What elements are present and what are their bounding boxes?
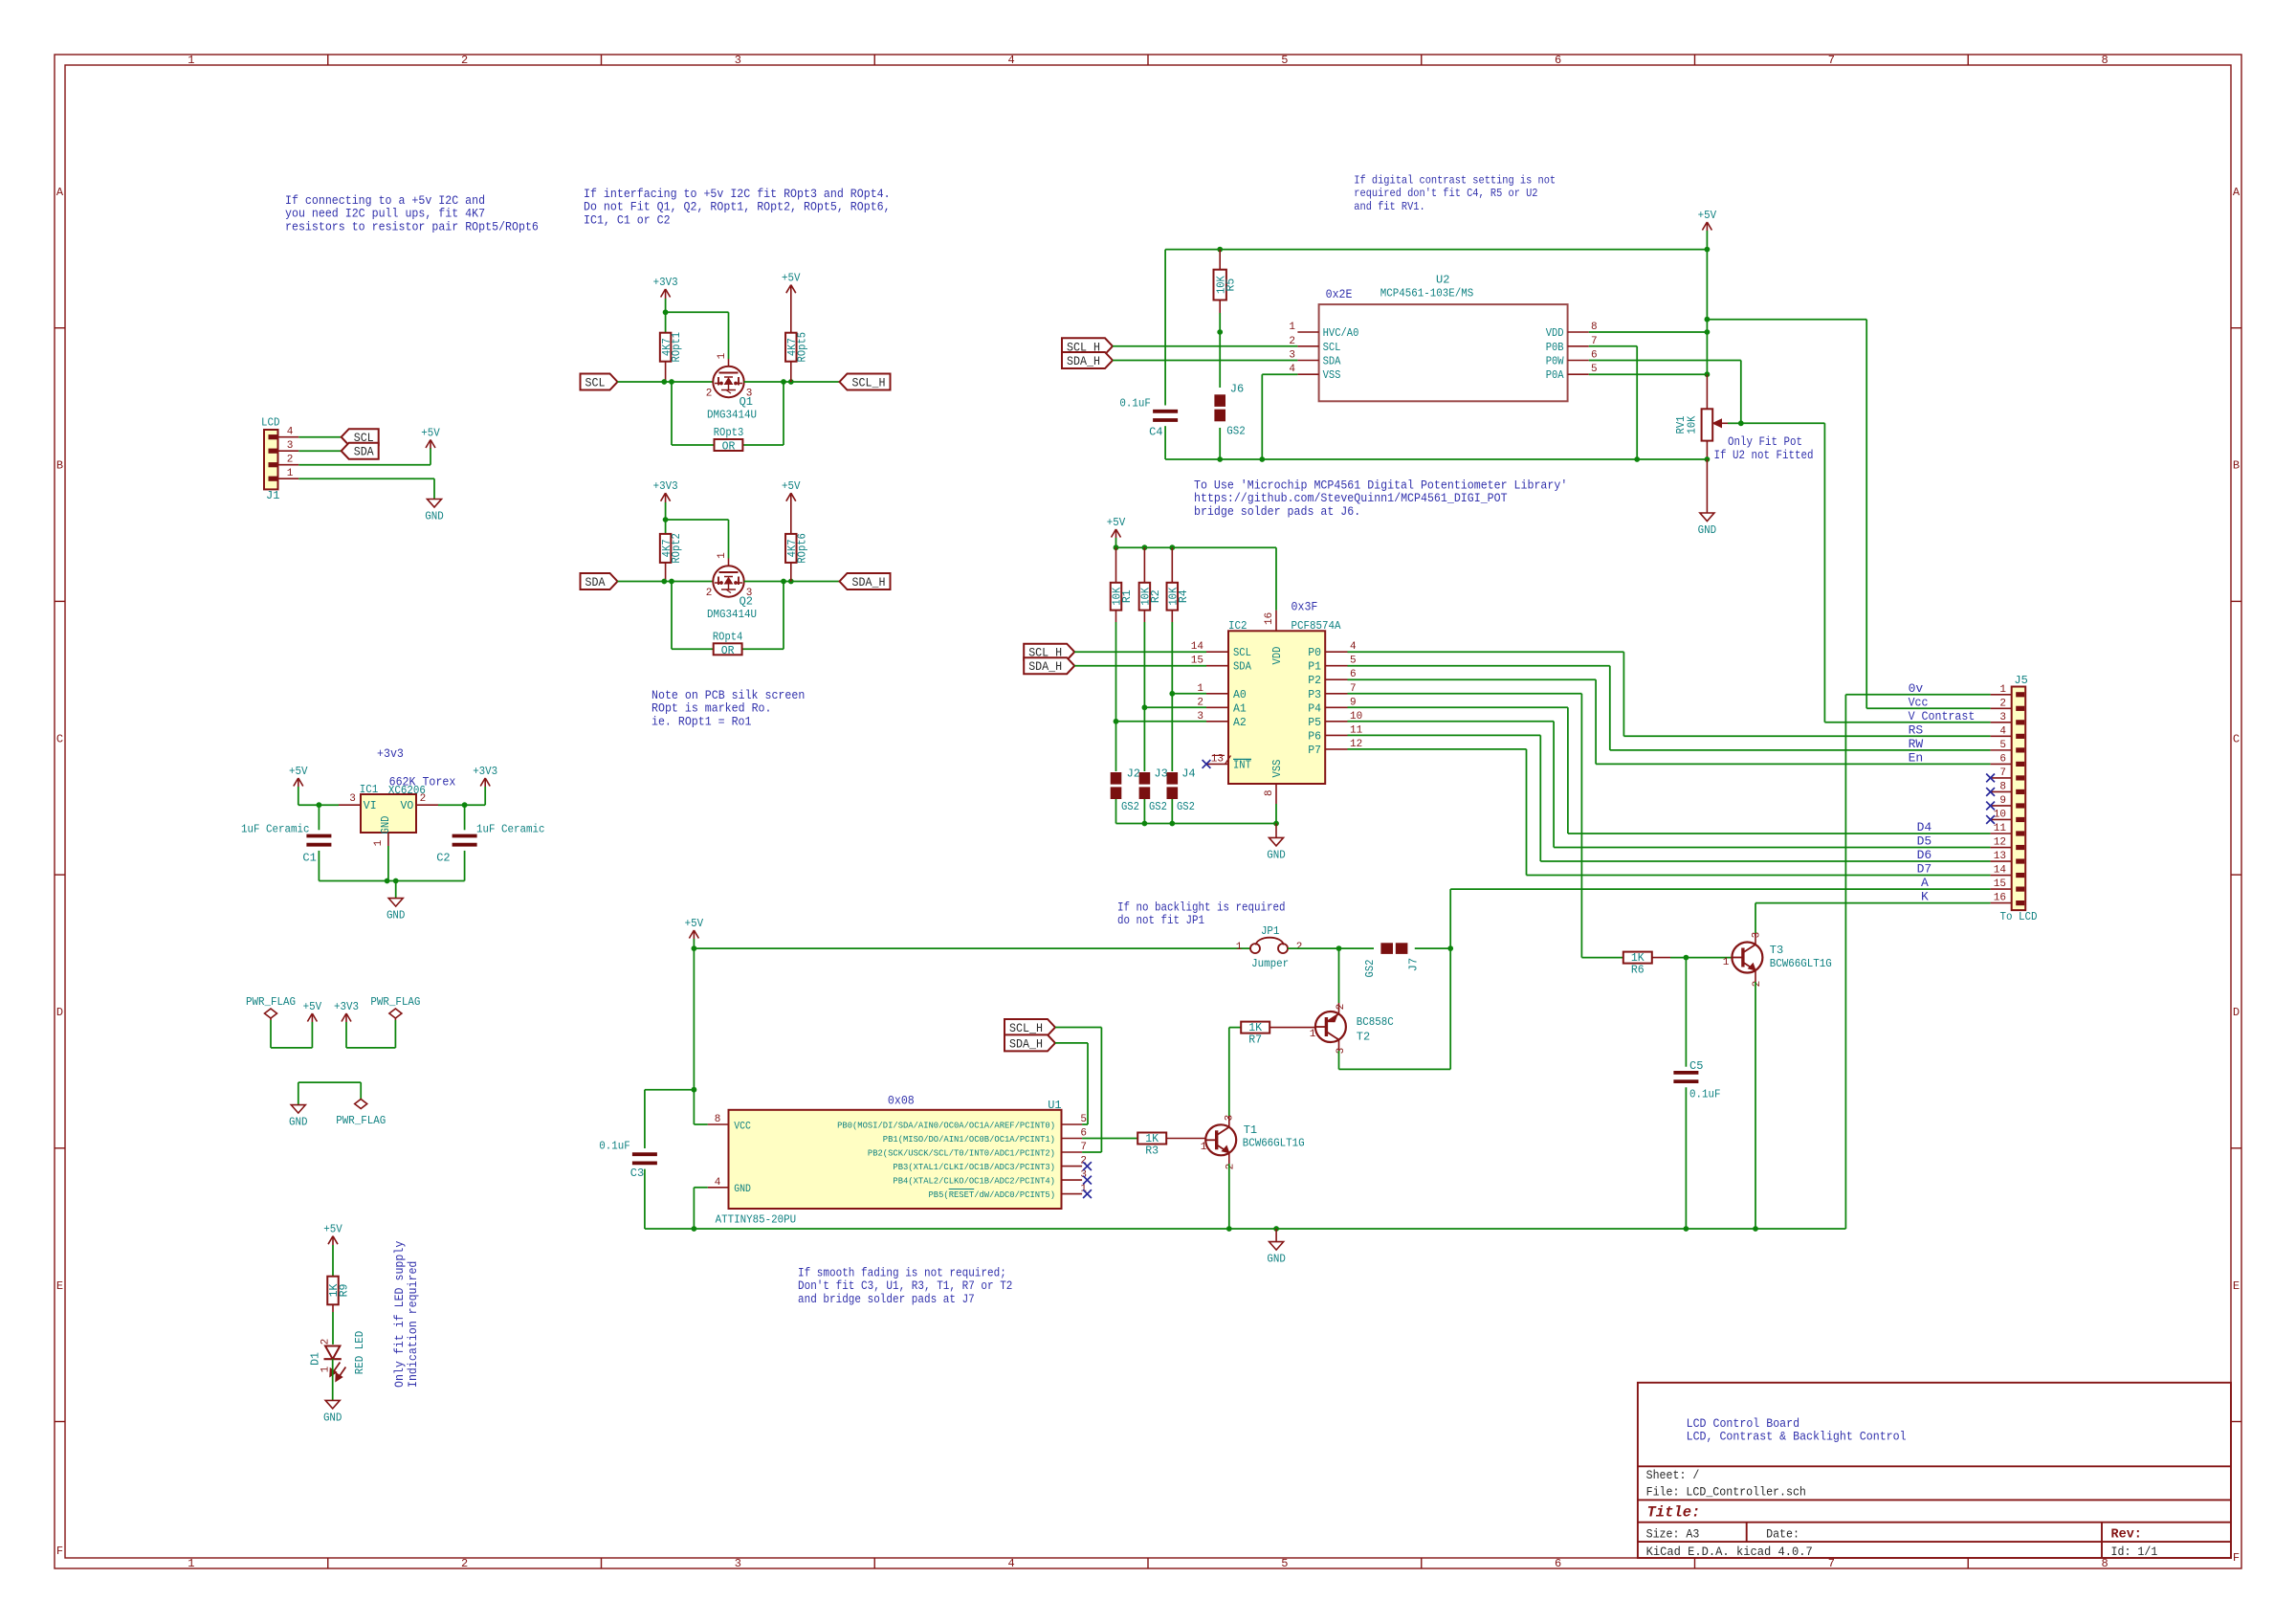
connector J5 pin 16	[2016, 900, 2024, 905]
U1 right pins	[1062, 1123, 1083, 1125]
svg-text:J1: J1	[266, 489, 279, 502]
power +5V (U1)	[689, 930, 694, 939]
svg-text:OR: OR	[722, 441, 736, 454]
wire SDA_H to PB0	[1055, 1042, 1088, 1044]
svg-text:ROpt2: ROpt2	[671, 533, 683, 564]
svg-text:1: 1	[320, 1366, 332, 1372]
svg-text:2: 2	[320, 1339, 332, 1345]
global label SDA_H (IC2)	[1024, 657, 1074, 674]
wire D1 to GND	[332, 1359, 334, 1400]
svg-text:1: 1	[188, 54, 194, 67]
junction A2	[1114, 719, 1119, 724]
transistor T3 BCW66GLT1G	[1732, 943, 1762, 973]
svg-text:INT: INT	[1233, 759, 1251, 771]
svg-text:SDA_H: SDA_H	[1009, 1036, 1043, 1051]
global label SDA_H (U2)	[1062, 352, 1113, 368]
title block dividers	[1638, 1465, 2231, 1467]
wire +5V top rail (U2)	[1165, 249, 1707, 251]
power +3V3 (Q2)	[661, 493, 666, 501]
junction C5 rail	[1684, 1226, 1689, 1232]
resistor ROpt3 0R	[715, 439, 743, 451]
svg-text:J5: J5	[2014, 674, 2027, 687]
svg-text:P5: P5	[1308, 717, 1321, 729]
svg-text:If U2 not Fitted: If U2 not Fitted	[1714, 449, 1814, 462]
svg-text:8: 8	[715, 1114, 721, 1125]
resistor R9 1K	[327, 1277, 339, 1305]
wire P4 to D4	[1348, 706, 1568, 708]
svg-text:0.1uF: 0.1uF	[599, 1139, 630, 1152]
junction Vcc branch	[1705, 317, 1711, 322]
global label SDA_H (Q2)	[840, 573, 891, 589]
svg-text:Vcc: Vcc	[1909, 695, 1929, 709]
wire Vcc to J5 pin2	[1866, 707, 1990, 709]
svg-text:2: 2	[706, 588, 713, 599]
svg-text:GS2: GS2	[1149, 800, 1167, 813]
svg-text:6: 6	[1999, 753, 2006, 765]
svg-text:C1: C1	[302, 851, 316, 864]
connector J1 pin 4	[269, 434, 277, 439]
solder jumper J4 GS2	[1167, 772, 1179, 785]
svg-text:U1: U1	[1048, 1099, 1061, 1112]
global label SDA_H (U1)	[1004, 1034, 1055, 1051]
svg-text:GND: GND	[380, 815, 392, 834]
svg-text:KiCad E.D.A. kicad 4.0.7: KiCad E.D.A. kicad 4.0.7	[1646, 1545, 1813, 1559]
junction C3 branch	[692, 1087, 697, 1093]
wire SCL_H to IC2 pin14	[1074, 651, 1206, 653]
svg-text:R5: R5	[1225, 278, 1238, 292]
wire T2 collector loop to J7 output	[1338, 1040, 1340, 1052]
connector J5 pin 14	[2016, 873, 2024, 878]
power +5V (IC2)	[1112, 529, 1116, 538]
svg-text:D4: D4	[1917, 820, 1932, 834]
pin RV1 bottom	[1706, 441, 1708, 459]
svg-text:B: B	[2233, 459, 2240, 473]
svg-text:14: 14	[1191, 641, 1204, 653]
svg-text:BCW66GLT1G: BCW66GLT1G	[1243, 1137, 1305, 1150]
svg-text:R9: R9	[339, 1284, 351, 1298]
junction T3 emitter rail	[1753, 1226, 1758, 1232]
resistor R2 10K	[1143, 547, 1145, 583]
connector J5 pin 13	[2016, 858, 2024, 863]
pin VO (IC1)	[416, 804, 438, 806]
junction IC2 bottom bus	[1142, 821, 1148, 827]
wire R4 column	[1171, 611, 1173, 622]
svg-text:HVC/A0: HVC/A0	[1323, 327, 1359, 340]
svg-text:Rev:: Rev:	[2111, 1527, 2142, 1542]
svg-text:VSS: VSS	[1271, 759, 1284, 777]
svg-text:2: 2	[1225, 1164, 1237, 1170]
resistor R4 10K	[1171, 547, 1173, 583]
power +5V (IC1)	[294, 778, 298, 787]
ground GND (U2)	[1706, 459, 1708, 513]
svg-text:15: 15	[1191, 656, 1203, 667]
capacitor C3 0.1uF	[644, 1090, 646, 1148]
svg-text:F: F	[2233, 1551, 2240, 1565]
svg-text:PB3(XTAL1/CLKI/OC1B/ADC3/PCINT: PB3(XTAL1/CLKI/OC1B/ADC3/PCINT3)	[893, 1162, 1055, 1172]
svg-text:GND: GND	[1267, 848, 1286, 861]
junction C2 top	[462, 802, 468, 808]
svg-text:A: A	[1921, 876, 1929, 890]
svg-text:5: 5	[1281, 1557, 1288, 1570]
svg-text:C3: C3	[630, 1167, 644, 1180]
svg-text:SDA: SDA	[585, 575, 606, 589]
power +5V (Q2)	[786, 493, 791, 501]
svg-text:LCD, Contrast & Backlight Cont: LCD, Contrast & Backlight Control	[1687, 1430, 1907, 1444]
svg-text:P0W: P0W	[1546, 356, 1564, 368]
svg-text:SDA_H: SDA_H	[852, 575, 886, 589]
svg-text:R1: R1	[1121, 589, 1134, 603]
svg-text:PWR_FLAG: PWR_FLAG	[370, 995, 420, 1009]
wire A1 from R2	[1144, 706, 1206, 708]
svg-text:GS2: GS2	[1363, 960, 1377, 978]
svg-text:8: 8	[1264, 789, 1275, 796]
svg-text:Sheet: /: Sheet: /	[1646, 1468, 1700, 1482]
junction dots SCL row right (Q1)	[781, 379, 786, 385]
svg-text:C5: C5	[1689, 1059, 1703, 1073]
wire P0B down	[1589, 345, 1637, 347]
svg-text:P3: P3	[1308, 689, 1321, 701]
resistor R6 1K	[1623, 952, 1652, 964]
svg-text:J3: J3	[1154, 767, 1167, 781]
resistor R5 10K	[1219, 250, 1221, 270]
connector J5 pin 2	[2016, 706, 2024, 711]
svg-text:GND: GND	[323, 1411, 342, 1424]
pin ROpt2 bottom	[665, 562, 667, 581]
junction T2 emitter	[1336, 945, 1342, 951]
svg-text:VSS: VSS	[1323, 369, 1341, 382]
IC2 left pins	[1206, 651, 1228, 653]
svg-text:resistors to resistor pair ROp: resistors to resistor pair ROpt5/ROpt6	[285, 219, 539, 233]
svg-text:0.1uF: 0.1uF	[1689, 1087, 1721, 1101]
svg-text:T3: T3	[1770, 944, 1783, 957]
svg-text:1: 1	[1723, 957, 1730, 968]
svg-text:U2: U2	[1436, 274, 1449, 287]
svg-text:1K: 1K	[1248, 1022, 1262, 1034]
svg-text:1: 1	[1289, 322, 1295, 333]
svg-text:GND: GND	[289, 1116, 308, 1129]
svg-text:16: 16	[1264, 612, 1275, 625]
solder jumper J3 GS2	[1139, 772, 1151, 785]
svg-text:4: 4	[1999, 725, 2006, 737]
global label SCL_H (U1)	[1004, 1019, 1055, 1035]
svg-text:10: 10	[1994, 809, 2006, 820]
junction VDD/+5V	[1705, 329, 1711, 335]
svg-text:J6: J6	[1230, 383, 1244, 396]
wire VSS (U2)	[1262, 373, 1297, 375]
wire gnd flag pair	[298, 1081, 361, 1083]
svg-text:2: 2	[461, 1557, 468, 1570]
svg-text:+5V: +5V	[303, 1000, 322, 1013]
pin GND (IC1)	[387, 833, 389, 846]
svg-text:If digital contrast setting is: If digital contrast setting is not	[1354, 173, 1556, 187]
wire VDD to +5V	[1589, 331, 1708, 333]
svg-text:R6: R6	[1631, 965, 1645, 977]
svg-text:1: 1	[717, 552, 728, 559]
diode D1 RED LED	[325, 1346, 340, 1360]
svg-text:11: 11	[1994, 823, 2007, 834]
svg-text:GND: GND	[1267, 1253, 1286, 1266]
capacitor C1 1uF	[318, 805, 320, 830]
svg-text:1: 1	[373, 839, 385, 846]
wire R2 column	[1143, 611, 1145, 622]
transistor Q2 DMG3414U	[713, 566, 743, 596]
no-connect x on INT	[1203, 760, 1211, 768]
svg-text:ROpt5: ROpt5	[796, 332, 808, 363]
junction J6 bottom	[1217, 456, 1223, 462]
svg-text:3: 3	[1999, 712, 2006, 723]
ground GND (D1)	[332, 1399, 334, 1401]
svg-text:D1: D1	[310, 1352, 322, 1366]
svg-text:IC2: IC2	[1228, 619, 1247, 633]
svg-text:A0: A0	[1233, 689, 1247, 701]
IC IC2 PCF8574A body	[1228, 631, 1325, 784]
resistor R7 1K	[1241, 1022, 1269, 1034]
svg-text:5: 5	[1999, 740, 2006, 751]
wire P1 to RW	[1348, 665, 1610, 667]
wire +5V to R9	[332, 1245, 334, 1277]
svg-text:P1: P1	[1308, 661, 1321, 674]
global label SCL_H (U2)	[1062, 338, 1113, 354]
svg-text:RED LED: RED LED	[353, 1331, 366, 1375]
power +5V (R9)	[328, 1236, 333, 1245]
svg-text:+5V: +5V	[289, 765, 308, 778]
wire +5V rail (IC2)	[1116, 546, 1277, 548]
connector J5 pin 15	[2016, 886, 2024, 891]
wire T3 emitter to rail	[1755, 970, 1756, 982]
svg-text:SDA_H: SDA_H	[1067, 354, 1100, 368]
wire A2 from R1	[1116, 721, 1207, 723]
column reference ticks and numbers	[327, 55, 329, 65]
capacitor C2 1uF	[464, 805, 466, 830]
svg-text:If no backlight is required: If no backlight is required	[1117, 901, 1286, 915]
junction rail gnd tap	[1273, 1226, 1279, 1232]
solder jumper J6 GS2	[1219, 332, 1221, 388]
svg-text:T1: T1	[1244, 1123, 1257, 1137]
svg-text:J7: J7	[1407, 958, 1421, 971]
svg-text:1: 1	[1236, 942, 1243, 953]
global label SDA (Q2)	[581, 573, 618, 589]
connector J1 body	[264, 430, 278, 489]
svg-text:GND: GND	[1698, 523, 1717, 537]
IC2 VSS pin 8	[1275, 784, 1277, 804]
IC2 INT pin 13	[1206, 763, 1228, 765]
svg-text:D6: D6	[1917, 848, 1932, 862]
svg-text:Q1: Q1	[740, 395, 753, 409]
svg-text:PB4(XTAL2/CLKO/OC1B/ADC2/PCINT: PB4(XTAL2/CLKO/OC1B/ADC2/PCINT4)	[893, 1176, 1055, 1187]
ground GND (J1)	[433, 499, 435, 500]
junction P0B bottom	[1634, 456, 1640, 462]
resistor ROpt6 4K7	[785, 534, 797, 563]
power +5V (J1)	[430, 440, 431, 449]
svg-text:VDD: VDD	[1546, 327, 1564, 340]
svg-text:ATTINY85-20PU: ATTINY85-20PU	[716, 1212, 797, 1226]
svg-text:+3V3: +3V3	[473, 765, 497, 778]
wire SDA_H to U2 pin3	[1113, 360, 1297, 362]
svg-text:Id: 1/1: Id: 1/1	[2111, 1545, 2158, 1559]
svg-text:J2: J2	[1127, 767, 1140, 781]
wire VO to +3V3 (IC1)	[438, 804, 485, 806]
svg-text:1: 1	[287, 468, 294, 479]
wire C3 branch horizontal	[645, 1089, 695, 1091]
svg-text:required don't fit C4, R5 or U: required don't fit C4, R5 or U2	[1354, 187, 1537, 200]
wire V Contrast to J5 pin3	[1824, 722, 1990, 723]
svg-text:2: 2	[461, 54, 468, 67]
junction dots SDA row right (Q2)	[781, 579, 786, 585]
junction R5 top	[1217, 247, 1223, 253]
svg-text:16: 16	[1994, 893, 2006, 904]
global label SCL_H (Q1)	[840, 374, 891, 390]
IC U1 ATTINY85-20PU body	[729, 1110, 1062, 1209]
svg-text:If smooth fading is not requir: If smooth fading is not required;	[798, 1267, 1006, 1280]
svg-text:MCP4561-103E/MS: MCP4561-103E/MS	[1380, 287, 1474, 300]
junction +5V/JP1	[692, 945, 697, 951]
wire SDA_H row (Q2)	[744, 581, 840, 583]
svg-text:GND: GND	[386, 909, 406, 923]
svg-text:D: D	[2233, 1006, 2240, 1019]
wire ROpt4 bridge (Q2)	[671, 582, 673, 650]
svg-text:SDA: SDA	[1233, 661, 1251, 674]
svg-text:+5V: +5V	[782, 272, 801, 285]
resistor ROpt1 4K7	[660, 333, 672, 362]
wire SCL row (Q1)	[618, 381, 714, 383]
svg-text:P4: P4	[1308, 702, 1321, 715]
svg-text:C: C	[56, 732, 63, 745]
svg-text:P2: P2	[1308, 675, 1321, 687]
svg-text:GS2: GS2	[1177, 800, 1195, 813]
svg-text:Only fit if LED supply: Only fit if LED supply	[392, 1241, 407, 1388]
wire P3 to R6 backlight control	[1348, 693, 1582, 695]
svg-text:2: 2	[287, 455, 294, 466]
svg-text:7: 7	[1828, 54, 1835, 67]
junction RV1 bottom	[1705, 456, 1711, 462]
wire P6 to D6	[1348, 734, 1541, 736]
svg-text:To LCD: To LCD	[2000, 910, 2038, 923]
svg-text:7: 7	[1828, 1557, 1835, 1570]
svg-text:1: 1	[1999, 684, 2006, 696]
svg-text:2: 2	[706, 389, 713, 400]
wire C4 branch	[1164, 250, 1166, 406]
svg-text:PB5(RESET/dW/ADC0/PCINT5): PB5(RESET/dW/ADC0/PCINT5)	[929, 1189, 1056, 1200]
svg-text:3: 3	[287, 440, 294, 452]
svg-text:+3V3: +3V3	[653, 479, 678, 493]
connector J5 pin 8	[2016, 789, 2024, 794]
transistor Q1 DMG3414U	[713, 367, 743, 397]
resistor ROpt4 0R	[714, 643, 742, 655]
wire ROpt3 bridge (Q1)	[671, 382, 673, 445]
svg-text:do not fit JP1: do not fit JP1	[1117, 914, 1204, 927]
U1 VCC pin 8	[694, 1123, 707, 1125]
svg-text:ie. ROpt1 = Ro1: ie. ROpt1 = Ro1	[651, 714, 752, 728]
svg-text:+3V3: +3V3	[653, 276, 678, 289]
svg-text:+3V3: +3V3	[334, 1000, 359, 1013]
svg-text:3: 3	[1336, 1048, 1347, 1055]
U1 GND pin 4	[708, 1187, 729, 1189]
ground GND (rail)	[1275, 1229, 1277, 1242]
U2 left pins	[1297, 331, 1318, 333]
global label SCL (Q1)	[581, 374, 618, 390]
svg-text:SDA: SDA	[354, 445, 374, 459]
svg-text:10K: 10K	[1687, 415, 1699, 434]
svg-text:A: A	[56, 186, 64, 199]
wire P0 to RS	[1348, 651, 1624, 653]
wire A riser to J5 pin15	[1449, 889, 1451, 948]
svg-text:3: 3	[735, 54, 741, 67]
svg-text:and fit RV1.: and fit RV1.	[1354, 200, 1424, 213]
regulator IC1 XC6206 body	[361, 794, 416, 833]
svg-text:VI: VI	[364, 800, 377, 812]
wire +3V3 to ROpt2 and gate (Q2)	[665, 502, 667, 534]
junction IC1 gnd bus	[385, 878, 390, 884]
svg-text:SDA_H: SDA_H	[1028, 659, 1062, 674]
svg-text:DMG3414U: DMG3414U	[707, 608, 757, 621]
svg-text:D: D	[56, 1006, 63, 1019]
svg-text:E: E	[2233, 1279, 2240, 1293]
svg-text:VDD: VDD	[1271, 646, 1284, 664]
wire SCL_H row (Q1)	[744, 381, 840, 383]
power flag PWR_FLAG 1	[265, 1009, 277, 1018]
svg-text:ROpt1: ROpt1	[671, 332, 683, 363]
row reference ticks and letters	[55, 327, 65, 329]
svg-text:RW: RW	[1909, 737, 1924, 751]
svg-text:D5: D5	[1917, 834, 1932, 849]
wire T1 collector to R7	[1228, 1116, 1230, 1127]
svg-text:7: 7	[1999, 767, 2006, 779]
svg-text:1: 1	[717, 352, 728, 359]
svg-text:E: E	[56, 1279, 63, 1293]
title block outline	[1638, 1383, 2231, 1558]
connector J1 pin 1	[269, 477, 277, 481]
wire U1 GND to rail	[694, 1187, 707, 1189]
ground GND (flag)	[298, 1104, 299, 1106]
resistor ROpt2 4K7	[660, 534, 672, 563]
power +5V (U2)	[1702, 222, 1707, 231]
svg-text:Size: A3: Size: A3	[1646, 1526, 1700, 1541]
svg-text:+5V: +5V	[782, 479, 801, 493]
pin ROpt1 bottom	[665, 362, 667, 382]
svg-text:PWR_FLAG: PWR_FLAG	[246, 995, 296, 1009]
svg-text:+5V: +5V	[685, 917, 704, 930]
svg-text:J4: J4	[1181, 767, 1195, 781]
svg-text:1: 1	[188, 1557, 194, 1570]
power +5V (flag)	[307, 1013, 312, 1022]
svg-text:R3: R3	[1145, 1145, 1159, 1158]
wire R7 to T2 base	[1270, 1027, 1315, 1029]
svg-text:A: A	[2233, 186, 2241, 199]
svg-text:GND: GND	[734, 1184, 751, 1195]
wire +5V to VI (IC1)	[298, 787, 299, 805]
connector J5 pin 9	[2016, 803, 2024, 808]
ground GND (IC1)	[395, 898, 397, 900]
transistor T1 BCW66GLT1G	[1205, 1124, 1236, 1155]
svg-text:1K: 1K	[1145, 1133, 1159, 1145]
svg-text:En: En	[1909, 750, 1924, 765]
connector J5 pin 11	[2016, 831, 2024, 835]
connector J1 pin 3	[269, 449, 277, 454]
svg-text:3: 3	[735, 1557, 741, 1570]
svg-text:LCD: LCD	[261, 416, 280, 430]
svg-text:ROpt3: ROpt3	[714, 427, 744, 439]
junction R5 bottom / HVC wire	[1217, 329, 1223, 335]
svg-text:Indication required: Indication required	[406, 1261, 420, 1388]
global label SCL (J1)	[342, 429, 379, 445]
svg-text:A2: A2	[1233, 717, 1247, 729]
wire IC1 ground bus	[387, 846, 389, 881]
U2 right pins	[1568, 331, 1589, 333]
svg-text:+5V: +5V	[421, 427, 440, 440]
svg-text:D7: D7	[1917, 862, 1932, 877]
wire PB1 to R3	[1082, 1138, 1137, 1140]
svg-text:0x08: 0x08	[888, 1093, 915, 1107]
